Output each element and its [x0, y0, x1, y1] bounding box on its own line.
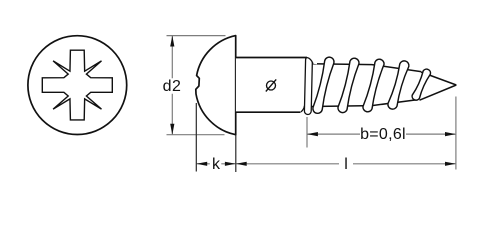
root line top: [311, 64, 421, 72]
label k: [200, 156, 232, 174]
thread turn 4: [388, 61, 409, 109]
thread turn 1: [313, 57, 334, 113]
k/l extension line at head face: [235, 135, 237, 172]
d2 arrow up: [170, 36, 174, 47]
shank top line: [236, 57, 307, 59]
diameter symbol: [266, 79, 276, 91]
neck transition top: [307, 58, 313, 64]
l arrow left: [236, 162, 247, 166]
diameter arrow up: [269, 58, 273, 69]
pozidriv recess cross: [42, 50, 112, 120]
d2 extension line bottom: [167, 134, 225, 136]
cone upper edge: [421, 72, 456, 85]
thread turn 0 (thread start at neck): [304, 56, 312, 114]
l dimension line: [236, 163, 455, 165]
dimension aux lines (gray): [167, 36, 456, 170]
root line bottom: [304, 100, 417, 107]
label l: [330, 156, 362, 174]
d2 extension line top: [167, 35, 226, 37]
neck transition bottom: [300, 107, 305, 113]
thread turn 3: [363, 59, 384, 112]
head front view circle: [28, 36, 127, 135]
thread turn 2: [338, 58, 359, 112]
d2 dimension line: [171, 36, 173, 134]
d2 arrow down: [170, 124, 174, 135]
b extension line left: [306, 117, 308, 148]
b arrow right: [445, 132, 456, 136]
diameter dimension line: [270, 58, 272, 112]
k dimension line: [197, 163, 236, 165]
shank bottom line: [236, 111, 300, 113]
cone lower edge: [420, 85, 457, 100]
k arrow right: [225, 162, 236, 166]
diameter arrow down: [269, 101, 273, 112]
k extension line left: [195, 103, 197, 172]
b extension line right: [455, 97, 457, 170]
shank: [236, 58, 301, 113]
k arrow left: [196, 162, 207, 166]
dimension arrowheads (black): [170, 36, 456, 166]
b dimension line: [308, 133, 456, 135]
b arrow left: [307, 132, 318, 136]
label d2: [156, 78, 188, 96]
thread turn 5: [412, 69, 430, 100]
l arrow right: [445, 162, 456, 166]
screw head side view: [196, 36, 236, 135]
thread core root lines and point: [304, 64, 457, 107]
thread bands: [313, 57, 431, 113]
neck cover bottom: [296, 106, 305, 113]
label b=0,6l: [353, 126, 413, 144]
neck cover top: [302, 55, 317, 64]
